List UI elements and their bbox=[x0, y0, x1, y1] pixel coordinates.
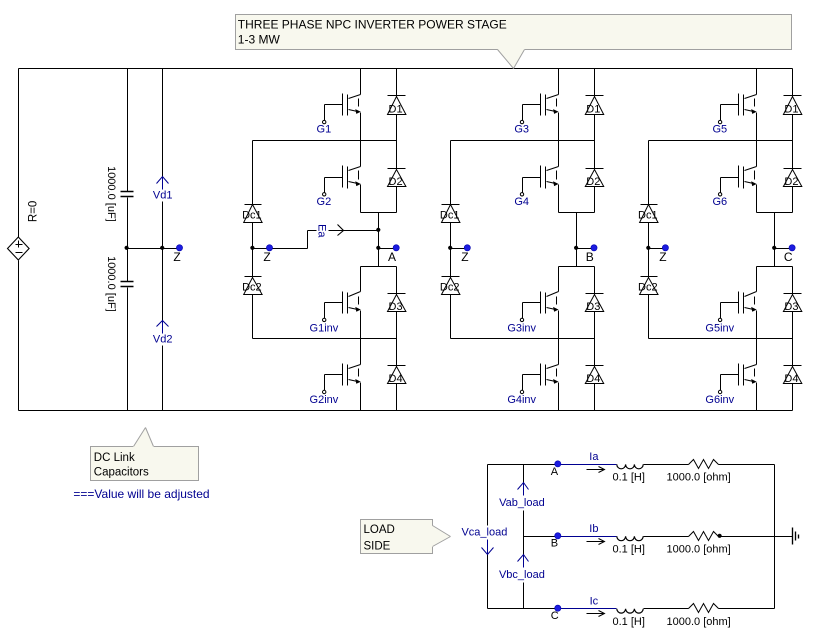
svg-text:Vca_load: Vca_load bbox=[461, 526, 507, 538]
svg-text:DC Link: DC Link bbox=[94, 452, 135, 464]
svg-text:0.1 [H]: 0.1 [H] bbox=[613, 544, 645, 556]
svg-text:Ia: Ia bbox=[589, 451, 599, 463]
svg-text:D4: D4 bbox=[586, 373, 600, 385]
svg-text:Z: Z bbox=[263, 250, 270, 264]
svg-text:Z: Z bbox=[173, 250, 180, 264]
svg-text:SIDE: SIDE bbox=[364, 540, 391, 552]
svg-text:Ib: Ib bbox=[589, 523, 598, 535]
svg-text:G5: G5 bbox=[712, 124, 727, 136]
svg-text:1-3 MW: 1-3 MW bbox=[238, 32, 281, 46]
svg-text:0.1 [H]: 0.1 [H] bbox=[613, 616, 645, 628]
svg-text:D2: D2 bbox=[586, 176, 600, 188]
svg-text:Vd2: Vd2 bbox=[153, 333, 173, 345]
svg-text:D4: D4 bbox=[389, 373, 403, 385]
svg-text:A: A bbox=[388, 250, 396, 264]
svg-text:D1: D1 bbox=[389, 104, 403, 116]
svg-text:G2: G2 bbox=[317, 196, 332, 208]
svg-text:Z: Z bbox=[659, 250, 666, 264]
svg-text:===Value will be adjusted: ===Value will be adjusted bbox=[73, 487, 209, 501]
svg-text:Dc2: Dc2 bbox=[440, 282, 460, 294]
svg-text:Ea: Ea bbox=[315, 224, 327, 238]
svg-text:G3: G3 bbox=[514, 124, 529, 136]
svg-text:Vd1: Vd1 bbox=[153, 190, 173, 202]
svg-text:1000.0 [uF]: 1000.0 [uF] bbox=[105, 166, 117, 222]
svg-text:G1inv: G1inv bbox=[310, 322, 339, 334]
svg-text:D4: D4 bbox=[784, 373, 798, 385]
svg-text:R=0: R=0 bbox=[27, 201, 39, 222]
svg-text:G5inv: G5inv bbox=[705, 322, 734, 334]
svg-text:D3: D3 bbox=[389, 301, 403, 313]
svg-text:Ic: Ic bbox=[590, 595, 599, 607]
svg-text:Dc2: Dc2 bbox=[638, 282, 658, 294]
svg-text:Vab_load: Vab_load bbox=[499, 497, 545, 509]
svg-text:D2: D2 bbox=[389, 176, 403, 188]
svg-text:G6: G6 bbox=[712, 196, 727, 208]
svg-text:G6inv: G6inv bbox=[705, 394, 734, 406]
svg-text:Capacitors: Capacitors bbox=[94, 467, 149, 479]
svg-text:G3inv: G3inv bbox=[507, 322, 536, 334]
svg-text:0.1 [H]: 0.1 [H] bbox=[613, 472, 645, 484]
svg-text:B: B bbox=[586, 250, 594, 264]
svg-text:1000.0 [uF]: 1000.0 [uF] bbox=[105, 256, 117, 312]
svg-text:Dc1: Dc1 bbox=[242, 210, 262, 222]
svg-text:Z: Z bbox=[461, 250, 468, 264]
svg-text:G2inv: G2inv bbox=[310, 394, 339, 406]
svg-text:Dc1: Dc1 bbox=[440, 210, 460, 222]
svg-text:G4inv: G4inv bbox=[507, 394, 536, 406]
svg-text:Dc1: Dc1 bbox=[638, 210, 658, 222]
svg-text:C: C bbox=[551, 610, 559, 622]
svg-text:1000.0 [ohm]: 1000.0 [ohm] bbox=[667, 544, 731, 556]
svg-text:G1: G1 bbox=[317, 124, 332, 136]
svg-text:1000.0 [ohm]: 1000.0 [ohm] bbox=[667, 472, 731, 484]
svg-text:A: A bbox=[551, 466, 559, 478]
svg-text:D3: D3 bbox=[586, 301, 600, 313]
svg-text:G4: G4 bbox=[514, 196, 529, 208]
svg-text:C: C bbox=[784, 250, 793, 264]
svg-text:THREE PHASE NPC INVERTER POWER: THREE PHASE NPC INVERTER POWER STAGE bbox=[238, 17, 507, 31]
svg-text:D1: D1 bbox=[586, 104, 600, 116]
svg-text:LOAD: LOAD bbox=[364, 524, 395, 536]
svg-text:Dc2: Dc2 bbox=[242, 282, 262, 294]
svg-text:1000.0 [ohm]: 1000.0 [ohm] bbox=[667, 616, 731, 628]
svg-text:D2: D2 bbox=[784, 176, 798, 188]
svg-text:D1: D1 bbox=[784, 104, 798, 116]
svg-text:B: B bbox=[551, 538, 558, 550]
svg-text:D3: D3 bbox=[784, 301, 798, 313]
svg-text:Vbc_load: Vbc_load bbox=[499, 569, 545, 581]
